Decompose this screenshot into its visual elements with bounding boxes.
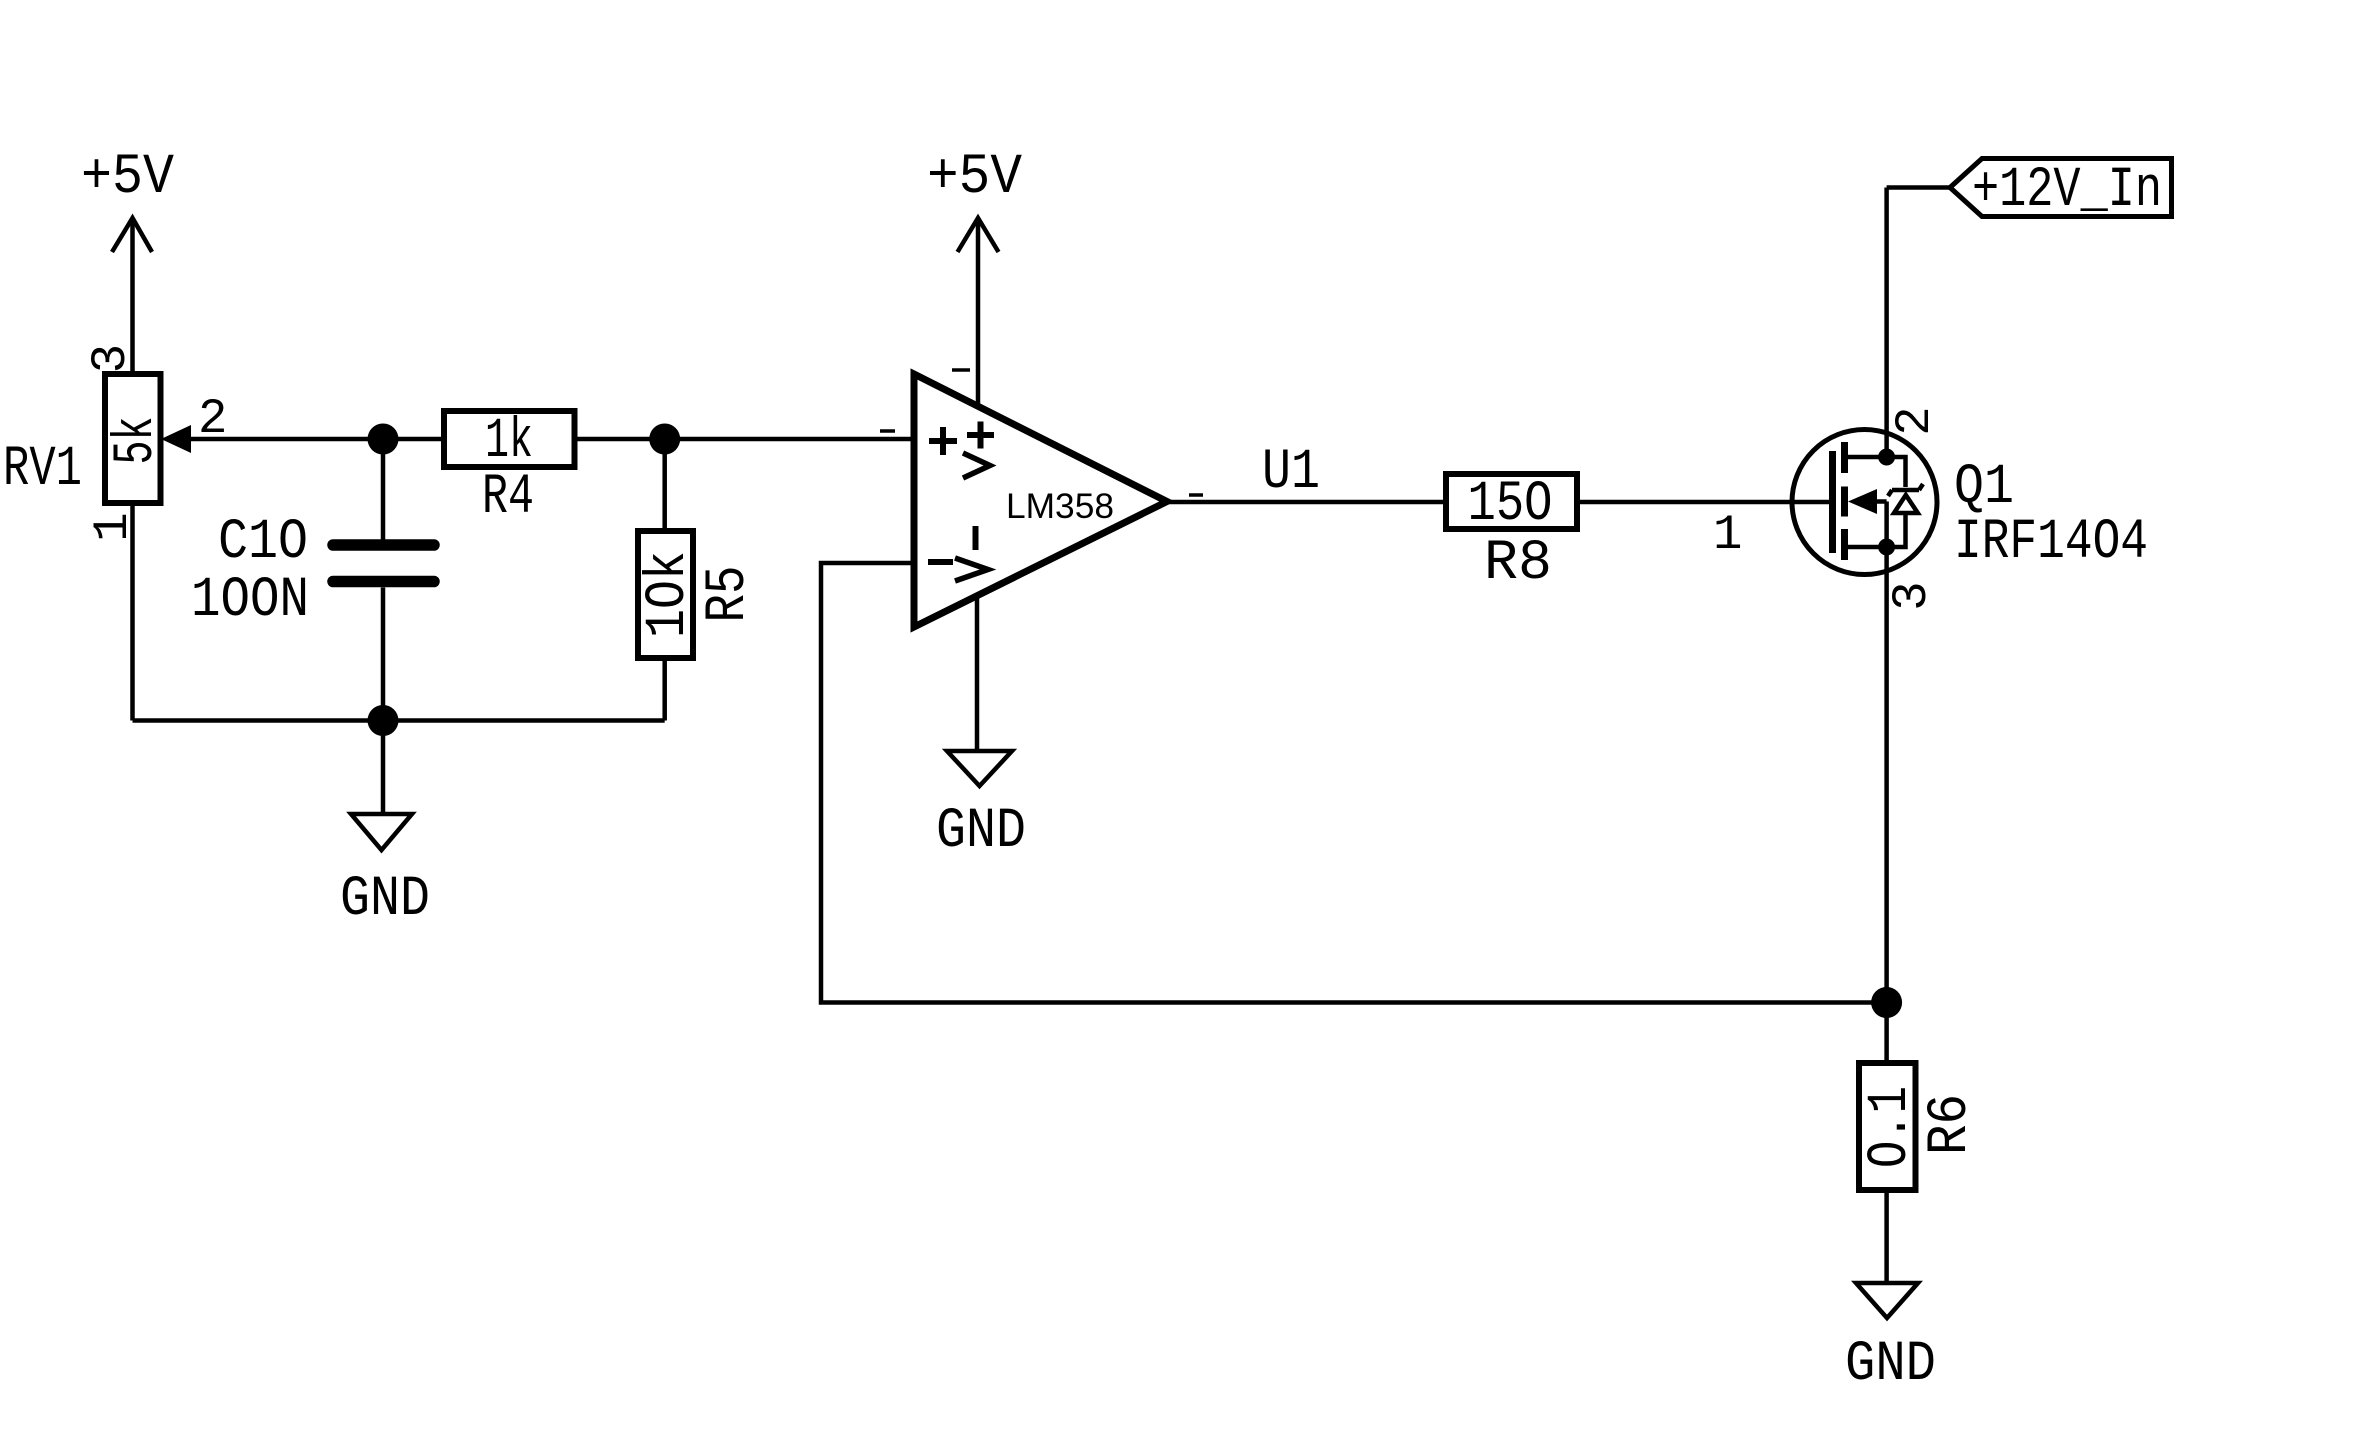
wire R5 bottom <box>662 658 667 721</box>
resistor R6 <box>1859 1063 1916 1190</box>
svg-text:15O: 15O <box>1468 473 1553 537</box>
op-amp V- pin name <box>955 526 988 581</box>
Q1 source connection <box>1848 545 1887 550</box>
svg-text:1k: 1k <box>485 410 533 474</box>
svg-text:O.1: O.1 <box>1859 1086 1923 1168</box>
Q1 substrate arrow <box>1848 489 1877 514</box>
wire RV1 pin1 down <box>130 503 135 721</box>
wire gate stub inside Q1 <box>1791 500 1830 505</box>
svg-text:IRF14O4: IRF14O4 <box>1954 511 2148 575</box>
svg-text:1OON: 1OON <box>191 569 309 633</box>
op-amp V+ pin name <box>963 422 994 479</box>
resistor R4 <box>444 411 575 467</box>
wire feedback from source node to IN- <box>821 563 1887 1003</box>
capacitor C10 <box>333 439 434 721</box>
svg-text:1: 1 <box>1713 507 1742 563</box>
svg-text:1Ok: 1Ok <box>637 551 701 638</box>
op-amp IN+ marker <box>929 427 957 455</box>
ground (bottom right) <box>1856 1283 1918 1318</box>
svg-text:R4: R4 <box>482 466 534 530</box>
svg-text:U1: U1 <box>1262 441 1320 505</box>
svg-text:LM358: LM358 <box>1006 487 1114 526</box>
svg-text:3: 3 <box>83 344 139 373</box>
svg-text:GND: GND <box>340 868 430 932</box>
svg-text:3: 3 <box>1884 581 1940 610</box>
svg-text:R5: R5 <box>697 566 761 623</box>
svg-text:+5V: +5V <box>927 146 1022 210</box>
resistor R8 <box>1446 474 1577 529</box>
resistor R5 <box>638 531 693 658</box>
junction node bottom (RV1 / C10 / R5 gnd net) <box>368 705 399 736</box>
op-amp pin number dash marks <box>880 370 1203 495</box>
wire R8 to Q1 gate <box>1577 500 1794 505</box>
svg-text:5k: 5k <box>105 417 169 465</box>
wire op-amp output to R8 <box>1167 500 1446 505</box>
junction node B (R4 / R5 / op-amp) <box>649 424 680 455</box>
ground (op-amp V-) <box>947 596 1012 786</box>
junction node A (wiper / C10 / R4) <box>368 424 399 455</box>
op-amp U1 LM358 <box>914 374 1167 627</box>
potentiometer RV1 <box>105 374 161 503</box>
wire to +12V_In flag <box>1887 185 1950 190</box>
svg-text:+12V_In: +12V_In <box>1972 159 2162 223</box>
wire Q1 source down <box>1884 547 1889 1063</box>
Q1 channel segments <box>1841 442 1848 560</box>
wire wiper to R4 <box>191 437 446 442</box>
transistor Q1 IRF1404 <box>1792 430 1937 575</box>
global label +12V_In <box>1950 159 2172 217</box>
wire R6 to ground <box>1884 1190 1889 1281</box>
svg-text:2: 2 <box>1887 406 1943 435</box>
junction node source/R6/feedback <box>1871 987 1902 1018</box>
op-amp IN- marker <box>928 559 953 565</box>
wire R4 to op-amp IN+ <box>572 437 914 442</box>
Q1 bulk-to-source link <box>1877 499 1887 504</box>
Q1 body diode <box>1887 457 1923 547</box>
ground (left, under C10) <box>351 721 412 851</box>
svg-text:+5V: +5V <box>81 146 174 210</box>
svg-text:R8: R8 <box>1484 532 1552 596</box>
svg-text:GND: GND <box>936 800 1026 864</box>
Q1 gate bar <box>1829 451 1836 553</box>
svg-text:RV1: RV1 <box>3 438 82 502</box>
power +5V (left, RV1 pin 3) <box>112 218 152 374</box>
svg-text:GND: GND <box>1845 1333 1936 1397</box>
svg-text:R6: R6 <box>1919 1094 1983 1155</box>
wire Q1 drain up <box>1884 188 1889 458</box>
Q1 drain connection <box>1848 455 1887 460</box>
svg-text:C1O: C1O <box>218 511 308 575</box>
power +5V (op-amp V+) <box>958 218 999 406</box>
wire junction B to R5 top <box>662 439 667 531</box>
wire bottom horizontal <box>133 718 665 723</box>
RV1 wiper arrow <box>161 425 191 453</box>
